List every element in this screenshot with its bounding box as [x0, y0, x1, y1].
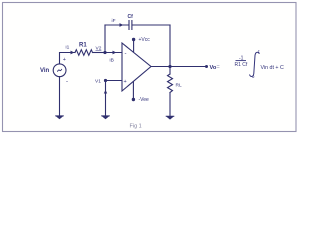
arrow i1: [66, 51, 74, 55]
svg-text:-Vee: -Vee: [139, 97, 150, 103]
capacitor Cf: [129, 21, 132, 30]
equation fraction bar: [236, 60, 247, 62]
svg-text:-: -: [66, 79, 68, 85]
equation integral sign: [250, 52, 260, 76]
wire feedback top left segment: [105, 24, 128, 26]
resistor RL: [168, 74, 173, 93]
junction output node: [168, 65, 171, 68]
op-amp U1: [122, 43, 151, 91]
svg-text:R1: R1: [79, 43, 87, 49]
ground (RL): [166, 116, 175, 120]
ground (source): [55, 115, 64, 119]
source Vin circle: [53, 64, 66, 77]
wire feedback up from node V2: [104, 25, 106, 53]
svg-text:V1: V1: [95, 79, 101, 85]
wire node V2 to op-amp inverting input: [105, 52, 122, 54]
terminal dot -Vee: [132, 98, 135, 101]
wire RL to ground: [169, 93, 171, 116]
arrow iB: [113, 51, 117, 55]
resistor R1: [75, 50, 93, 56]
wire op-amp output to Vo: [151, 66, 206, 68]
svg-text:Cf: Cf: [128, 14, 134, 20]
svg-text:Vin: Vin: [40, 68, 50, 74]
wire R1 to node V2: [94, 52, 106, 54]
wire feedback down to output: [169, 25, 171, 67]
svg-text:Fig 1: Fig 1: [130, 124, 142, 130]
source sine mark: [58, 69, 62, 71]
svg-text:iB: iB: [110, 58, 114, 64]
junction node V1: [104, 79, 107, 82]
wire +Vcc stub: [133, 40, 135, 52]
svg-text:Vin dt + C: Vin dt + C: [261, 65, 284, 71]
svg-text:+Vcc: +Vcc: [139, 37, 151, 43]
svg-text:+: +: [124, 79, 127, 85]
arrow V1 up: [104, 90, 107, 94]
border frame: [3, 3, 297, 132]
svg-text:i1: i1: [66, 45, 70, 51]
wire source top to resistor: [60, 53, 76, 65]
svg-text:=: =: [217, 65, 220, 71]
arrow iF: [120, 23, 124, 27]
svg-text:+: +: [63, 57, 66, 63]
wire feedback top right segment: [133, 24, 171, 26]
wire output junction down to RL: [169, 67, 171, 75]
svg-text:V2: V2: [96, 45, 102, 51]
ground (node V1): [101, 115, 110, 119]
svg-text:RL: RL: [176, 83, 182, 89]
svg-text:R1 Cf: R1 Cf: [235, 62, 248, 68]
svg-text:iF: iF: [112, 18, 116, 24]
terminal dot Vo: [205, 65, 208, 68]
wire -Vee stub: [132, 82, 134, 99]
terminal dot +Vcc: [132, 38, 135, 41]
wire node V1 to op-amp non-inverting input: [106, 80, 122, 82]
junction node V2: [103, 51, 106, 54]
svg-text:-: -: [125, 51, 127, 57]
wire node V1 down to ground: [105, 81, 107, 116]
wire source bottom to ground: [59, 77, 61, 115]
